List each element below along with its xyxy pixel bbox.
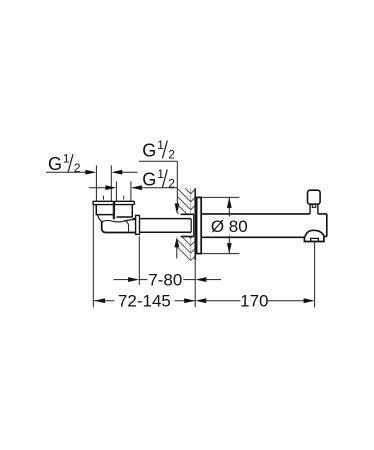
valve elbow body: [102, 220, 136, 232]
valve top flange bar: [93, 201, 134, 204]
svg-text:G: G: [142, 169, 156, 189]
connecting pipe to wall: [140, 219, 192, 233]
valve cast contour (wavy): [98, 215, 136, 222]
dim line G1/2 lower (port B): [89, 185, 177, 190]
aerator notch: [311, 238, 319, 241]
extension line valve left: [92, 205, 94, 307]
dim 170: [195, 292, 314, 311]
svg-text:2: 2: [74, 161, 81, 175]
dim line G1/2 left (port A): [46, 170, 138, 175]
opposing arrow below pipe thread: [174, 237, 179, 259]
svg-text:1: 1: [157, 138, 164, 152]
svg-text:G: G: [142, 140, 156, 160]
svg-text:7-80: 7-80: [148, 271, 182, 290]
extension line wall face lower: [194, 260, 196, 307]
knob stem: [310, 204, 318, 214]
wall face line: [194, 188, 196, 260]
spout end dome: [305, 230, 327, 237]
extension lines port B: [116, 181, 130, 201]
port centerline ticks: [104, 196, 124, 200]
dim 72-145: [94, 292, 195, 311]
svg-text:2: 2: [168, 148, 175, 162]
svg-text:1: 1: [157, 167, 164, 181]
wall thread box: [181, 214, 194, 236]
valve seam verticals: [113, 205, 114, 219]
label G1/2 left: [48, 152, 81, 176]
valve bonnet right: [116, 205, 132, 217]
pipe end cap: [191, 215, 194, 236]
svg-text:2: 2: [168, 177, 175, 191]
label G1/2 lower-middle: [142, 167, 175, 191]
extension lines port A: [96, 165, 111, 201]
stem notch: [312, 204, 315, 207]
svg-text:1: 1: [63, 152, 70, 166]
dim Ø80 extension lines: [202, 197, 239, 253]
spout body: [201, 214, 327, 237]
wall hatching upper block: [177, 180, 195, 226]
svg-text:Ø 80: Ø 80: [211, 217, 248, 236]
escutcheon flange: [197, 197, 202, 253]
wall finish boundary (gray): [190, 189, 192, 261]
extension line outlet center: [314, 242, 316, 308]
dim Ø80 line and arrows: [227, 197, 232, 253]
neck line to union nut: [132, 218, 135, 220]
dim 7-80: [114, 271, 222, 290]
union nut: [136, 215, 140, 234]
wall hatching lower block: [177, 225, 195, 261]
outlet / aerator housing: [304, 236, 324, 241]
leader G1/2 top-middle to wall thread: [139, 161, 180, 214]
svg-text:170: 170: [240, 292, 268, 311]
diverter knob: [308, 190, 321, 204]
label G1/2 top-middle: [142, 138, 175, 162]
svg-text:72-145: 72-145: [118, 292, 171, 311]
svg-text:G: G: [48, 154, 62, 174]
extension line nut face: [138, 236, 140, 285]
valve bonnet left: [96, 205, 113, 215]
